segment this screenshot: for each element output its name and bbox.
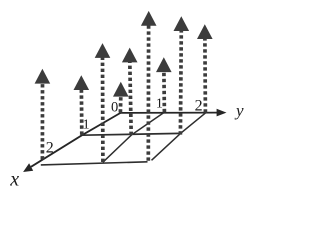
svg-text:2: 2 bbox=[46, 140, 54, 157]
vector C at (2,1) bbox=[95, 43, 111, 162]
y-axis bbox=[121, 109, 227, 117]
svg-text:y: y bbox=[234, 101, 244, 120]
vector H at (0,2) bbox=[197, 24, 213, 112]
svg-text:2: 2 bbox=[195, 98, 203, 115]
vector F at (2,2) bbox=[141, 11, 157, 161]
grid col 2 bbox=[152, 113, 206, 160]
x-axis bbox=[23, 113, 120, 172]
svg-text:0: 0 bbox=[111, 99, 118, 115]
svg-text:x: x bbox=[9, 169, 19, 191]
vector D at (0,0) bbox=[113, 82, 129, 113]
vector G at (1,2) bbox=[174, 16, 190, 134]
grid col 1 bbox=[103, 113, 164, 163]
vector I at (0,1) bbox=[156, 57, 172, 112]
svg-text:1: 1 bbox=[156, 97, 163, 112]
svg-text:1: 1 bbox=[83, 118, 90, 133]
grid row 2 bbox=[41, 162, 148, 165]
grid row 1 bbox=[82, 133, 181, 135]
vector E at (1,1) bbox=[122, 48, 138, 135]
vector A at (2,0) bbox=[35, 69, 51, 160]
vector B at (1,0) bbox=[74, 75, 90, 135]
